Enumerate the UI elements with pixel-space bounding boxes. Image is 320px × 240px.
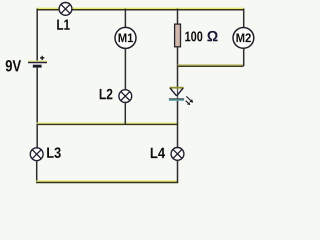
lamp L4 [171, 148, 184, 161]
wire: bottom horizontal from L3 column to L4 column [36, 181, 178, 182]
wire: resistor down to LED [177, 47, 179, 88]
wire: left vertical from battery down to L3 [36, 68, 38, 148]
LED light arrows [186, 96, 194, 105]
wire: left vertical, battery top lead [36, 9, 38, 62]
resistor value label ohm symbol [207, 31, 217, 41]
wire: left vertical from L3 to bottom wire [36, 161, 38, 183]
lamp L1 on top wire [59, 2, 72, 15]
wire: M1 column top lead [124, 9, 126, 28]
wire: horizontal from resistor column to M2 column [178, 65, 244, 66]
label L4 [151, 148, 165, 158]
wire: M2 column top lead [243, 9, 245, 28]
wire: L4 down to bottom wire [177, 160, 179, 182]
motor M1 [115, 27, 136, 48]
motor M2 [233, 28, 254, 49]
wire: resistor column top lead [177, 9, 179, 25]
label L3 [47, 147, 61, 158]
wire: M1 to L2 [124, 49, 126, 90]
wire: M2 bottom lead down to horizontal [243, 48, 245, 66]
label L1 [57, 19, 70, 29]
lamp L2 [119, 90, 132, 103]
LED D1 [169, 88, 184, 101]
wire: L2 down to middle bus [124, 103, 126, 125]
lamp L3 [30, 148, 43, 161]
battery B1 9V [28, 56, 47, 68]
label L2 [100, 89, 113, 99]
resistor R1 body [175, 24, 181, 47]
wire: LED down to middle bus and L4 [177, 101, 179, 148]
battery value label 9V [6, 60, 21, 72]
wire: middle horizontal bus from battery column to LED column [37, 123, 179, 124]
wire: top horizontal from battery column to M2 column [37, 8, 245, 9]
resistor value label 100 [185, 31, 202, 41]
